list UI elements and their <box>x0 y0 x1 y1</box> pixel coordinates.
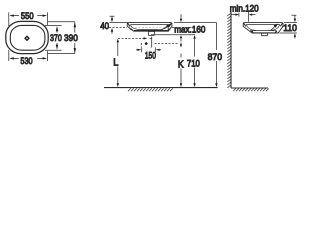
svg-text:370: 370 <box>50 33 62 44</box>
svg-text:150: 150 <box>145 50 156 61</box>
small down arrow on K extension <box>155 43 183 48</box>
max.160 top arrow <box>180 14 182 22</box>
870 dimension line <box>215 23 217 88</box>
outlet level line (drain to 710) <box>151 34 195 36</box>
svg-text:550: 550 <box>21 11 34 22</box>
floor hatching (right) <box>233 89 269 92</box>
wall hatching <box>227 13 231 88</box>
basin outer rim (plan view) <box>6 21 48 53</box>
svg-text:K: K <box>178 59 184 70</box>
basin front profile <box>127 23 172 32</box>
drain stem under basin <box>148 32 154 36</box>
svg-text:530: 530 <box>20 56 32 67</box>
basin side profile <box>243 23 283 33</box>
svg-text:110: 110 <box>283 23 297 34</box>
svg-text:min.120: min.120 <box>230 4 259 15</box>
basin inner bowl (plan view) <box>10 25 45 50</box>
svg-text:max.160: max.160 <box>174 24 205 35</box>
short extension dash left of 150 dim <box>140 43 142 47</box>
dimension 370 (right of plan, inner) <box>45 26 62 51</box>
drain notch under basin (side view) <box>262 33 268 36</box>
dimension 110 <box>280 15 297 38</box>
rim extension line right to 870 <box>174 22 216 24</box>
leader arrow at right rim (side view) <box>271 24 278 31</box>
L dimension line <box>117 39 119 87</box>
dimension 530 (bottom of plan) <box>9 50 48 61</box>
max.160 bottom arrow <box>180 35 182 41</box>
dimension 550 (top of plan) <box>9 12 48 26</box>
drain centre mark (elevation) <box>145 42 148 45</box>
drain centre extension line <box>151 37 153 48</box>
wall line <box>230 12 232 89</box>
dimension 40 arrows <box>111 16 113 34</box>
svg-text:710: 710 <box>187 58 200 69</box>
710 dimension line <box>193 35 195 87</box>
dimension min.120 <box>231 12 256 22</box>
svg-text:870: 870 <box>208 52 222 63</box>
svg-text:40: 40 <box>100 21 109 32</box>
floor line (middle) <box>104 87 218 89</box>
floor line (right) <box>231 87 268 89</box>
outlet dashed line to L <box>118 37 153 39</box>
floor hatching (middle) <box>128 88 173 91</box>
arrow at drain end of dashed line <box>144 37 148 39</box>
rim extension line left (40 dim) <box>110 16 129 22</box>
leader arrow at right rim (front view) <box>160 23 171 31</box>
countertop dashed line <box>109 27 192 29</box>
dimension 150 under drain <box>136 47 161 52</box>
svg-text:L: L <box>113 57 118 68</box>
dimension 390 (right of plan, outer) <box>48 22 76 54</box>
drain symbol (plan view) <box>24 35 30 41</box>
svg-text:390: 390 <box>64 33 78 44</box>
K dimension line <box>180 54 182 88</box>
